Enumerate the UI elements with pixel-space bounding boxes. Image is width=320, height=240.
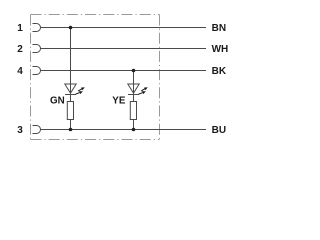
node junction on BU line (left) xyxy=(69,128,73,132)
svg-text:BU: BU xyxy=(212,125,226,136)
pin 4 socket contact xyxy=(33,67,41,75)
wire vertical branch 1 (LED GN leg) xyxy=(70,28,72,102)
LED D1 emission arrow lower xyxy=(75,90,83,96)
svg-text:3: 3 xyxy=(17,125,23,136)
wire pin1 to BN xyxy=(41,27,207,29)
wire pin2 to WH xyxy=(41,48,207,50)
connector housing dash-dot border top edge xyxy=(31,14,160,16)
svg-text:1: 1 xyxy=(17,23,23,34)
pin 1 socket contact xyxy=(33,24,41,32)
svg-text:WH: WH xyxy=(212,44,229,55)
pin 2 socket contact xyxy=(33,45,41,53)
svg-text:GN: GN xyxy=(50,96,65,107)
node junction on BU line (right) xyxy=(132,128,136,132)
resistor R1 xyxy=(67,102,73,120)
svg-text:4: 4 xyxy=(17,66,23,77)
pin 3 socket contact xyxy=(33,126,41,134)
svg-text:YE: YE xyxy=(112,96,126,107)
LED D2 emission arrow upper xyxy=(140,86,148,93)
svg-text:2: 2 xyxy=(17,44,23,55)
LED D1 cathode bar xyxy=(65,94,76,96)
connector housing dash-dot border right edge xyxy=(159,15,161,140)
wire pin3 to BU xyxy=(41,129,207,131)
connector housing dash-dot border bottom edge xyxy=(31,139,160,141)
resistor R2 xyxy=(130,102,136,120)
svg-text:BK: BK xyxy=(212,66,227,77)
LED D2 cathode bar xyxy=(128,94,139,96)
wire vertical branch 2 lower segment xyxy=(133,120,135,130)
LED D2 (YE) diode triangle xyxy=(128,84,139,93)
LED D1 (GN) diode triangle xyxy=(65,84,76,93)
connector housing dash-dot border left edge xyxy=(30,15,32,140)
svg-text:BN: BN xyxy=(212,23,226,34)
node junction on BN line xyxy=(69,26,73,30)
LED D1 emission arrow upper xyxy=(77,86,85,93)
LED D2 emission arrow lower xyxy=(138,90,146,96)
wire pin4 to BK xyxy=(41,70,207,72)
wire vertical branch 1 lower segment xyxy=(70,120,72,130)
wire vertical branch 2 (LED YE leg) xyxy=(133,71,135,102)
node junction on BK line xyxy=(132,69,136,73)
